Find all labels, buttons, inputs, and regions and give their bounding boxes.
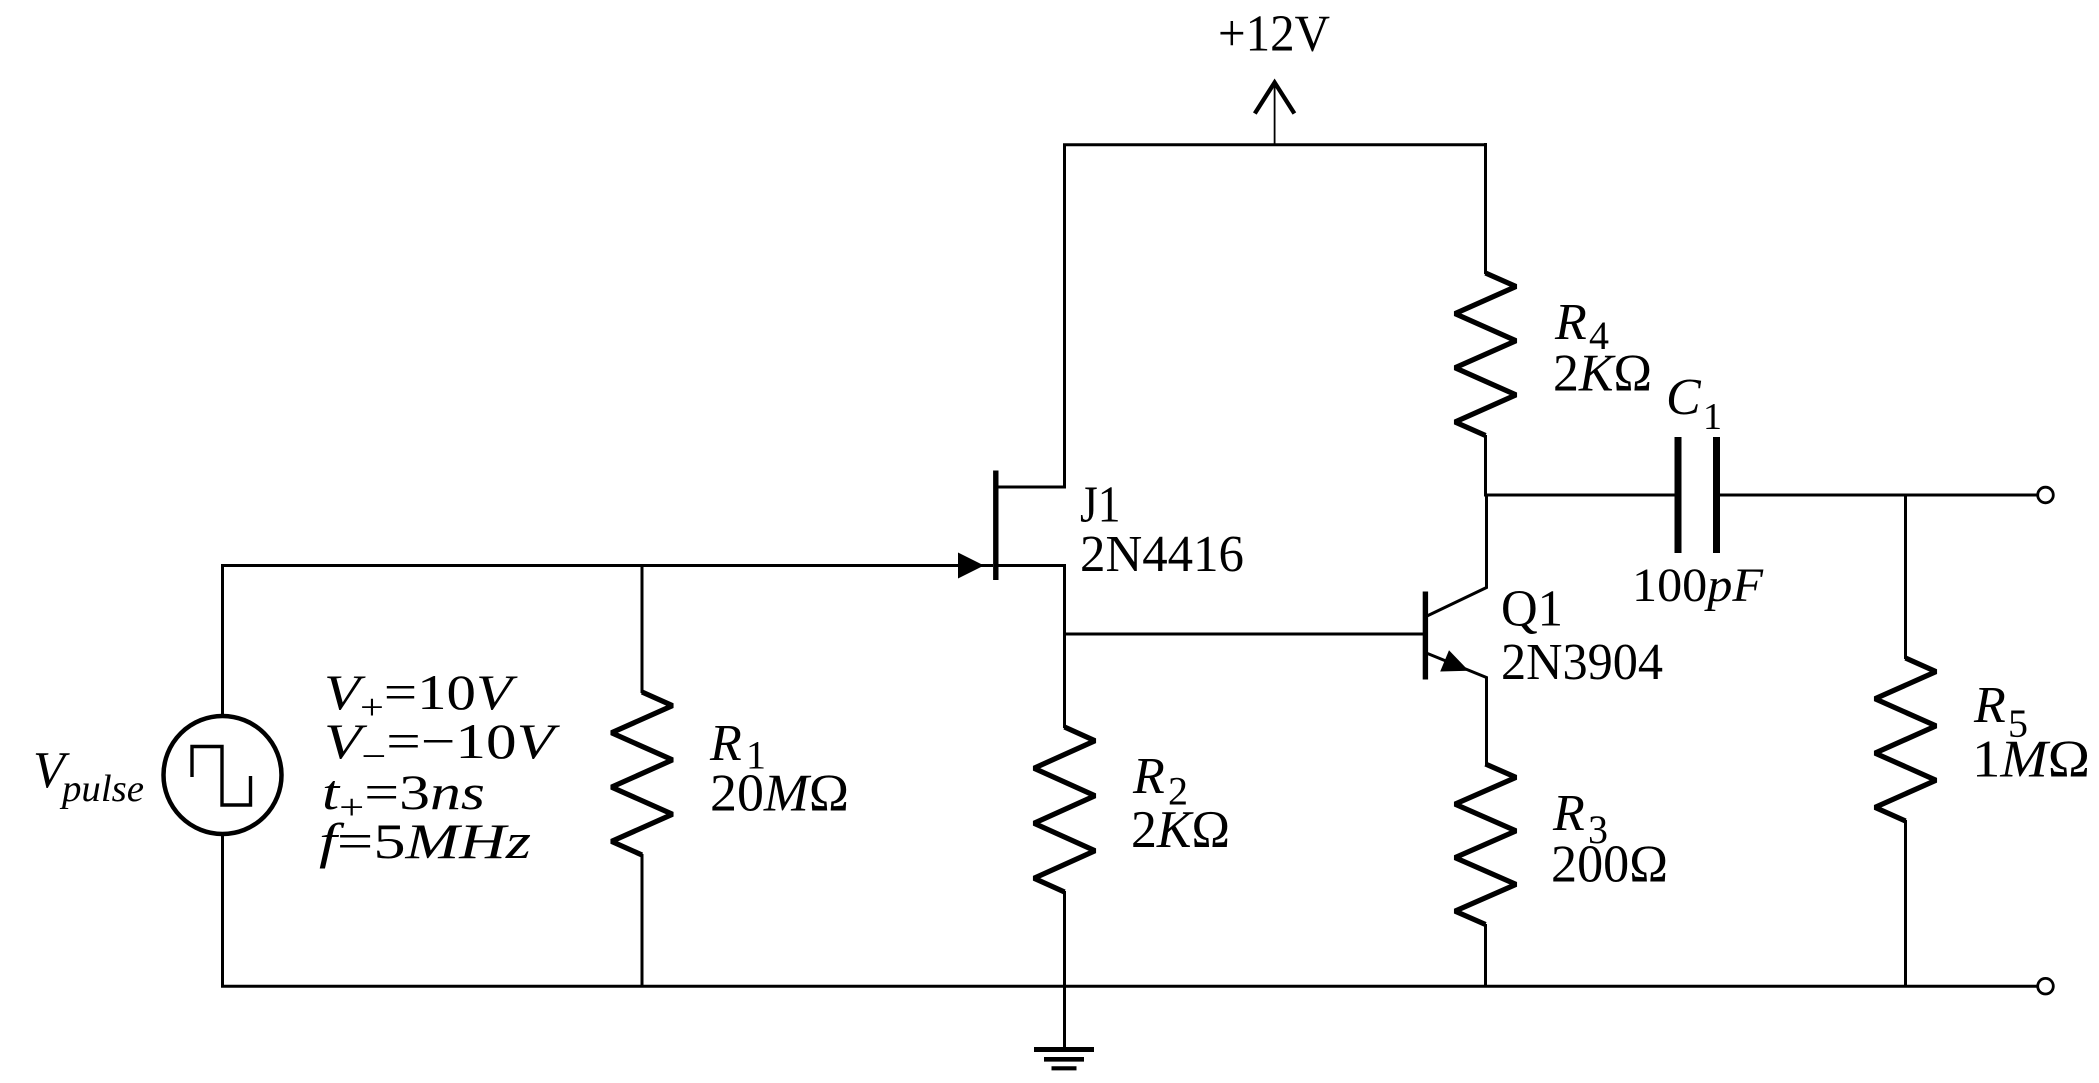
wire ground stem below rail [1063,985,1066,1048]
JFET J1 channel bar [993,471,998,581]
svg-text:200Ω: 200Ω [1551,836,1668,894]
svg-text:R: R [1554,294,1587,351]
resistor R1 [612,692,673,855]
wire J1 drain contact and vertical up [996,144,1065,487]
transistor Q1 emitter arrowhead [1440,650,1469,671]
svg-text:2KΩ: 2KΩ [1553,345,1652,403]
+12V supply arrow stem [1274,84,1276,146]
label R5 value 1MOhm [1972,731,2090,789]
resistor R2 [1034,727,1095,892]
svg-text:1: 1 [1703,396,1722,438]
wire top rail +12V [1063,143,1485,146]
label +12V [1218,6,1330,63]
wire R2 bottom lead [1063,891,1066,987]
wire gate horizontal from input to J1 gate [222,564,993,567]
wire R4 top lead [1484,143,1487,274]
label Q1 part number 2N3904 [1501,634,1663,691]
svg-text:+12V: +12V [1218,6,1330,63]
svg-text:R: R [709,715,742,772]
svg-text:1MΩ: 1MΩ [1972,731,2090,789]
label Q1 [1501,581,1563,638]
voltage source Vpulse pulse waveform glyph [192,747,251,806]
resistor R5 [1875,658,1936,821]
svg-text:R: R [1973,677,2006,734]
svg-text:2N4416: 2N4416 [1080,526,1244,583]
label J1 part number 2N4416 [1080,526,1244,583]
label C1 [1666,369,1722,438]
label source parameter V+=10V [324,664,518,727]
wire R5 bottom lead [1904,820,1907,987]
label source parameter V-=-10V [324,713,561,776]
label R4 value 2KOhm [1553,345,1652,403]
svg-text:f=5MHz: f=5MHz [319,813,531,869]
svg-text:2KΩ: 2KΩ [1131,801,1230,859]
svg-text:R: R [1552,785,1585,842]
svg-text:100pF: 100pF [1632,559,1764,612]
capacitor C1 right plate [1713,437,1720,553]
svg-text:pulse: pulse [59,768,144,810]
wire J1 source contact and vertical down to R2 [996,566,1065,729]
label R3 [1552,785,1608,852]
transistor Q1 base bar [1423,592,1428,680]
label J1 [1080,477,1121,534]
label R1 value 20MOhm [710,765,849,823]
wire R1 top lead [641,564,644,693]
svg-text:2N3904: 2N3904 [1501,634,1663,691]
resistor R4 [1455,273,1516,436]
voltage source Vpulse circle [164,716,282,834]
capacitor C1 left plate [1675,437,1682,553]
output terminal bottom [2038,978,2054,994]
wire Q1 base from J1 source branch [1063,633,1423,636]
svg-text:C: C [1666,369,1702,426]
label R3 value 200Ohm [1551,836,1668,894]
output terminal top [2038,487,2054,503]
wire bottom ground rail [221,985,2037,988]
wire collector node to C1 left plate [1484,494,1675,497]
label R5 [1973,677,2028,746]
ground [1034,1050,1094,1069]
wire Vpulse bottom to ground rail [221,834,224,987]
+12V supply arrow chevron [1255,83,1295,114]
label R1 [709,715,766,778]
svg-text:20MΩ: 20MΩ [710,765,849,823]
svg-text:Q1: Q1 [1501,581,1563,638]
wire R5 top lead [1904,495,1907,659]
wire input vertical from gate wire down to Vpulse top [221,564,224,716]
wire R4 bottom lead to collector node [1484,435,1487,496]
label source parameter f=5MHz [319,813,531,869]
wire R1 bottom lead [641,854,644,987]
JFET J1 gate arrowhead [958,553,984,579]
wire R3 bottom lead [1484,924,1487,987]
transistor Q1 emitter lead [1428,654,1487,766]
label source parameter t+=3ns [322,764,485,827]
resistor R3 [1455,764,1516,925]
label C1 value 100pF [1632,559,1764,612]
label R2 value 2KOhm [1131,801,1230,859]
transistor Q1 collector lead [1427,494,1487,616]
svg-text:J1: J1 [1080,477,1121,534]
wire C1 right plate to output terminal [1720,494,2037,497]
label R2 [1132,748,1188,814]
label Vpulse [33,742,144,810]
label R4 [1554,294,1609,358]
svg-text:R: R [1132,748,1165,805]
